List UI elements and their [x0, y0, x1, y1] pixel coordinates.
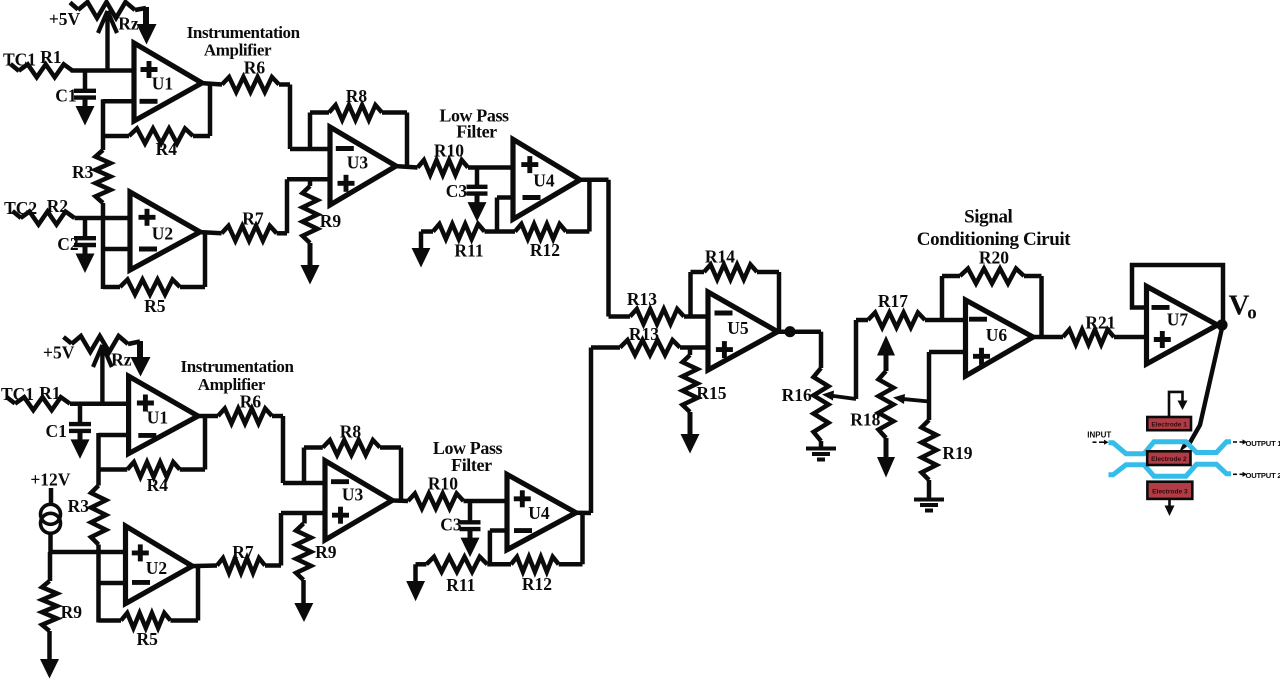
svg-text:Electrode 1: Electrode 1	[1151, 422, 1187, 429]
wire R5 to U2 output (top)	[203, 232, 208, 288]
wire node TC1 to U1 + input (top)	[71, 68, 134, 73]
resistor R7 (bottom)	[217, 558, 265, 573]
svg-text:R6: R6	[244, 58, 266, 78]
svg-text:R13: R13	[629, 324, 659, 344]
wire U7 feedback loop	[1132, 265, 1223, 325]
resistor R10 (top)	[418, 160, 468, 175]
svg-text:R2: R2	[47, 196, 68, 216]
svg-text:R10: R10	[428, 474, 458, 494]
wire Rz to ground arrow (bottom)	[137, 341, 143, 360]
resistor R5 (top)	[103, 285, 120, 290]
electrode 1 lead	[1169, 392, 1183, 417]
svg-text:o: o	[1247, 303, 1257, 324]
svg-text:Electrode 3: Electrode 3	[1152, 488, 1188, 495]
wire inverting bus lower (top)	[101, 203, 106, 289]
op-amp U3 (top)	[330, 127, 396, 205]
wire R20 to U6 output	[1039, 276, 1044, 337]
Rz wiper arrow (top)	[105, 14, 109, 71]
svg-text:R14: R14	[705, 247, 735, 267]
wire Rz to ground arrow (top)	[143, 7, 149, 26]
svg-text:R20: R20	[979, 248, 1009, 268]
input arrow	[1093, 441, 1097, 443]
wire R7 to U3 + (top)	[277, 231, 287, 236]
resistor R3 (bottom)	[91, 486, 106, 545]
potentiometer R16	[814, 368, 829, 441]
svg-text:R18: R18	[850, 410, 880, 430]
wire U1 - input (bottom)	[99, 433, 129, 438]
svg-text:R13: R13	[627, 289, 657, 309]
op-amp U7	[1147, 286, 1218, 364]
resistor R19	[922, 420, 937, 480]
resistor R1 (top)	[11, 64, 20, 71]
potentiometer Rz (bottom)	[64, 337, 72, 344]
ground arrow at R11 (bottom)	[413, 564, 418, 582]
svg-text:R16: R16	[782, 385, 812, 405]
svg-text:R4: R4	[147, 475, 169, 495]
U2 + pin (top)	[139, 215, 156, 220]
svg-text:C1: C1	[55, 86, 76, 106]
svg-text:+5V: +5V	[43, 343, 75, 363]
U6 - pin	[969, 317, 987, 322]
U3 - pin (top)	[336, 146, 354, 151]
resistor R11 (top)	[421, 229, 433, 234]
op-amp U1 (top)	[134, 43, 202, 121]
U4 - pin (bottom)	[514, 528, 532, 533]
U3 + pin (top)	[338, 181, 355, 186]
op-amp U5	[708, 292, 778, 370]
resistor R12 (bottom)	[511, 557, 559, 572]
svg-text:OUTPUT 2: OUTPUT 2	[1246, 471, 1280, 480]
resistor R21	[1063, 330, 1114, 345]
wire node to U2 + input (bottom)	[51, 550, 126, 555]
ground arrow at R9 (top)	[308, 243, 313, 267]
potentiometer Rz (top)	[70, 3, 78, 10]
svg-text:Instrumentation: Instrumentation	[180, 357, 294, 376]
U2 + pin (bottom)	[132, 550, 149, 555]
U5 - pin	[715, 311, 733, 316]
wire U2 output (top)	[198, 232, 222, 233]
wire R10 to U4 + (top)	[468, 165, 513, 170]
ground bars at R19	[927, 480, 932, 499]
svg-text:Electrode 2: Electrode 2	[1151, 456, 1187, 463]
op-amp U1 (bottom)	[129, 376, 198, 453]
resistor R3 (top)	[96, 150, 111, 203]
svg-text:U3: U3	[342, 485, 364, 505]
svg-text:R21: R21	[1085, 313, 1115, 333]
resistor R2	[13, 211, 22, 218]
svg-text:R9: R9	[320, 211, 342, 231]
wire inverting bus lower (bottom)	[96, 545, 101, 623]
svg-text:U1: U1	[152, 74, 173, 94]
potentiometer R18 up arrow	[884, 353, 889, 371]
U4 + pin (top)	[521, 162, 538, 167]
wire U4b output to R13 (lower)	[574, 510, 591, 515]
svg-text:U5: U5	[727, 318, 749, 338]
svg-text:Instrumentation: Instrumentation	[187, 23, 301, 42]
wire R5 to U2 output (bottom)	[196, 566, 201, 621]
svg-text:INPUT: INPUT	[1087, 431, 1111, 440]
wire node to R9 (bottom left)	[48, 552, 53, 581]
svg-text:Amplifier: Amplifier	[204, 41, 272, 60]
U4 + pin (bottom)	[514, 496, 531, 501]
U1 + pin (top)	[141, 67, 158, 72]
svg-text:R7: R7	[242, 209, 264, 229]
wire R6 to U3 - (bottom)	[272, 414, 283, 419]
svg-text:R17: R17	[878, 291, 908, 311]
electrode 1 arrowhead	[1178, 401, 1188, 411]
svg-text:U4: U4	[533, 171, 555, 191]
svg-text:OUTPUT 1: OUTPUT 1	[1246, 439, 1280, 448]
resistor R8 (top)	[308, 113, 313, 150]
wire U1 output (top)	[200, 83, 222, 85]
U1 + pin (bottom)	[137, 401, 154, 406]
svg-text:R11: R11	[446, 575, 475, 595]
waveguide lower	[1109, 464, 1232, 476]
wire U4 - input (bottom)	[490, 528, 507, 533]
electrode E2	[1147, 451, 1190, 465]
svg-text:C3: C3	[440, 515, 462, 535]
wire U2 - input (bottom)	[99, 581, 126, 586]
ground arrow at C1 (bottom)	[78, 432, 83, 442]
wire R6 to U3 - (top)	[279, 82, 290, 87]
ground arrow at C3 (top)	[475, 195, 480, 205]
U1 - pin (bottom)	[138, 433, 156, 438]
wire node TC1 to U1 + input (bottom)	[70, 401, 129, 406]
svg-text:C2: C2	[57, 234, 78, 254]
svg-text:Filter: Filter	[451, 455, 492, 475]
R18 wiper arrow	[901, 399, 929, 402]
ground arrow at R9 (bottom)	[301, 580, 306, 605]
resistor R9 (top vertical)	[308, 179, 313, 186]
resistor R1 (bottom)	[7, 397, 16, 404]
svg-text:R8: R8	[346, 86, 368, 106]
svg-text:R12: R12	[522, 574, 552, 594]
svg-text:R3: R3	[72, 162, 94, 182]
resistor R4 (bottom)	[99, 467, 128, 472]
wire R18 wiper to U6 + input	[927, 352, 932, 420]
resistor R4 (top)	[103, 134, 129, 139]
wire R12 to U4 output (top)	[587, 180, 592, 232]
resistor R6 (top)	[222, 77, 279, 92]
resistor R10 (bottom)	[408, 494, 464, 509]
resistor R13 (lower)	[620, 340, 680, 355]
node U5 output dot	[784, 326, 795, 337]
wire U2b output	[190, 563, 217, 568]
wire R8 to U3 output (top)	[405, 113, 410, 167]
wire R7 to U3 + (bottom)	[265, 563, 281, 568]
resistor R20	[940, 276, 945, 320]
wire U3 output (top)	[394, 166, 418, 168]
electrode 3 lead	[1168, 499, 1171, 507]
svg-text:C1: C1	[46, 421, 67, 441]
resistor R9 (bottom vertical)	[302, 513, 307, 524]
wire U6 output	[1031, 335, 1063, 340]
R16 wiper arrow	[830, 396, 856, 400]
ground arrow at Rz (top)	[137, 24, 157, 45]
svg-text:R10: R10	[434, 141, 464, 161]
svg-text:R12: R12	[530, 240, 560, 260]
wire R10 to U4 + (bottom)	[464, 499, 508, 504]
wire R4 to U1 output (bottom)	[203, 415, 208, 469]
svg-text:Signal: Signal	[964, 207, 1012, 228]
wire U2 - input (top)	[103, 247, 130, 252]
svg-text:Rz: Rz	[118, 14, 139, 34]
resistor R17	[868, 313, 925, 328]
ground arrow at R11 (top)	[419, 232, 424, 250]
svg-text:+12V: +12V	[30, 470, 70, 490]
capacitor C1 (bottom)	[78, 404, 83, 423]
potentiometer R18	[879, 371, 894, 438]
svg-text:U2: U2	[152, 224, 173, 244]
resistor R11 (bottom)	[416, 562, 427, 567]
svg-text:Rz: Rz	[111, 350, 132, 370]
ground arrow at Rz (bottom)	[131, 357, 151, 377]
svg-text:R8: R8	[340, 422, 362, 442]
wire inverting bus upper (bottom)	[96, 433, 101, 486]
current source circles	[41, 504, 61, 524]
resistor R13 (upper)	[630, 309, 684, 324]
output 1 arrow	[1233, 441, 1237, 443]
ground arrow at C2	[83, 246, 88, 256]
resistor R12 (top)	[515, 224, 566, 239]
wire R13 lower to U5 + input	[680, 345, 708, 350]
resistor R8 (bottom)	[302, 448, 307, 484]
svg-text:R19: R19	[942, 443, 972, 463]
Rz wiper arrow (bottom)	[100, 348, 104, 404]
svg-text:+5V: +5V	[49, 9, 81, 29]
op-amp U3 (bottom)	[325, 461, 392, 540]
svg-text:R9: R9	[315, 542, 337, 562]
resistor R5 (bottom)	[99, 618, 122, 623]
U2 - pin (bottom)	[132, 580, 150, 585]
svg-text:Conditioning Ciruit: Conditioning Ciruit	[917, 229, 1071, 250]
U5 + pin	[716, 347, 733, 352]
U2 - pin (top)	[139, 247, 157, 252]
wire R16 wiper to R17	[854, 320, 859, 399]
wire R12 to U4 output (bottom)	[580, 513, 585, 564]
U3 - pin (bottom)	[331, 479, 349, 484]
ground arrow at C1 (top)	[83, 99, 88, 109]
wire R21 to U7 + input	[1114, 335, 1147, 340]
svg-text:U2: U2	[146, 558, 167, 578]
wire R8 to U3 output (bottom)	[399, 448, 404, 501]
svg-text:R3: R3	[68, 496, 90, 516]
wire R13 to U5 - input	[684, 314, 708, 319]
svg-text:C3: C3	[446, 181, 468, 201]
waveguide upper	[1109, 442, 1232, 454]
svg-text:R1: R1	[39, 383, 60, 403]
wire R4 to U1 output (top)	[208, 82, 213, 136]
svg-text:U4: U4	[528, 503, 550, 523]
electrode E1	[1147, 417, 1191, 430]
op-amp U2 (top)	[130, 192, 200, 270]
wire U1 - input (top)	[103, 99, 134, 104]
U3 + pin (bottom)	[332, 513, 349, 518]
capacitor C3 (bottom)	[468, 501, 473, 521]
electrode E3	[1147, 482, 1192, 499]
op-amp U4 (bottom)	[507, 474, 576, 549]
ground arrow at R15	[688, 412, 693, 436]
ground bars at R16	[819, 441, 824, 448]
U7 + pin	[1154, 337, 1171, 342]
op-amp U4 (top)	[513, 139, 580, 219]
svg-text:U1: U1	[147, 408, 168, 428]
U4 - pin (top)	[523, 195, 541, 200]
wire node TC2 to U2 + input (top)	[75, 216, 131, 221]
wire U4 output to R13 (top)	[578, 178, 609, 183]
electrode 3 arrowhead	[1165, 506, 1175, 517]
resistor R9 (bottom left)	[42, 581, 57, 631]
ground arrow at C3 (bottom)	[468, 530, 473, 540]
wire R17 to U6 - input	[925, 318, 966, 323]
resistor R7 (top)	[222, 226, 277, 241]
U7 - pin	[1152, 305, 1170, 310]
wire U1b output	[196, 414, 218, 419]
svg-text:R7: R7	[232, 542, 254, 562]
capacitor C1 (top)	[83, 71, 88, 90]
wire to R16	[819, 332, 824, 368]
svg-text:R1: R1	[40, 47, 61, 67]
svg-text:R4: R4	[156, 139, 178, 159]
op-amp U2 (bottom)	[126, 526, 193, 604]
svg-text:Amplifier: Amplifier	[198, 375, 266, 394]
wire +12V to source	[49, 488, 54, 506]
wire R14 to U5 output	[777, 272, 782, 332]
svg-text:R9: R9	[61, 602, 83, 622]
svg-text:R5: R5	[137, 629, 159, 649]
arrowhead at Electrode 2	[1179, 439, 1190, 452]
node Vo output dot	[1216, 319, 1227, 330]
R18 down arrow	[884, 438, 889, 459]
svg-text:U7: U7	[1167, 310, 1189, 330]
output 2 arrow	[1233, 473, 1237, 475]
svg-text:U6: U6	[986, 325, 1008, 345]
wire U4 - input (top)	[497, 195, 513, 200]
svg-text:R11: R11	[454, 241, 483, 261]
resistor R15	[688, 348, 693, 356]
svg-text:U3: U3	[347, 153, 369, 173]
wire U5 output	[775, 329, 821, 334]
wire source to node	[48, 533, 53, 552]
svg-text:R5: R5	[144, 296, 166, 316]
resistor R6 (bottom)	[218, 409, 272, 424]
svg-text:R15: R15	[696, 383, 726, 403]
resistor R14	[688, 272, 693, 317]
wire U3 output (bottom)	[390, 498, 408, 503]
wire inverting bus upper (top)	[101, 99, 106, 150]
U6 + pin	[973, 354, 990, 359]
svg-text:R6: R6	[240, 392, 262, 412]
capacitor C3 (top)	[475, 168, 480, 186]
capacitor C2	[83, 218, 88, 237]
ground arrow at R9 (bottom left)	[47, 631, 52, 661]
U1 - pin (top)	[140, 99, 158, 104]
svg-text:Filter: Filter	[456, 122, 497, 142]
wire Vo to Electrode 2	[1188, 328, 1222, 446]
op-amp U6	[966, 300, 1034, 376]
